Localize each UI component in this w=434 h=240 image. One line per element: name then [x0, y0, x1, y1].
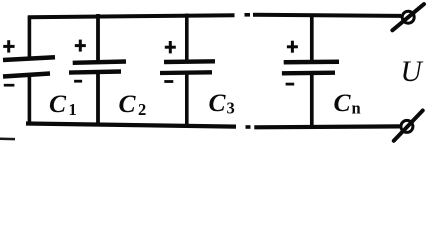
polarity minus C2 — [74, 80, 82, 83]
svg-text:1: 1 — [69, 100, 77, 119]
terminal bottom-right — [394, 111, 423, 141]
polarity minus C1 — [4, 84, 15, 87]
capacitor Cn bottom plate — [282, 70, 335, 75]
wire C3 bottom lead — [185, 73, 189, 127]
terminal top-right — [392, 4, 424, 30]
label C1 — [49, 89, 77, 119]
polarity plus Cn — [287, 41, 298, 53]
capacitor C2 top plate — [73, 62, 126, 63]
svg-text:C: C — [49, 89, 67, 118]
polarity minus Cn — [286, 83, 295, 86]
wire C2 top lead — [96, 14, 100, 63]
wire top rail right segment — [253, 15, 401, 16]
svg-text:n: n — [352, 99, 361, 118]
capacitor Cn top plate — [284, 59, 339, 64]
capacitor C1 bottom plate — [3, 74, 50, 77]
capacitor C2 bottom plate — [69, 72, 121, 73]
svg-text:C: C — [334, 88, 352, 117]
svg-text:2: 2 — [138, 100, 146, 119]
wire Cn bottom lead — [310, 73, 314, 128]
wire top rail dash — [245, 13, 251, 17]
polarity plus C3 — [165, 41, 176, 53]
polarity plus C1 — [3, 40, 14, 52]
wire top rail left segment — [28, 15, 235, 17]
svg-text:C: C — [209, 88, 227, 117]
wire bottom rail left segment — [26, 124, 236, 127]
label C3 — [209, 88, 235, 118]
capacitor C1 top plate — [3, 57, 55, 60]
wire bottom rail right segment — [254, 124, 399, 129]
polarity plus C2 — [75, 40, 86, 52]
wire C2 bottom lead — [96, 73, 100, 127]
label Cn — [334, 88, 361, 118]
capacitor C3 bottom plate — [160, 70, 212, 75]
wire C1 bottom lead — [28, 75, 32, 126]
wire C1 top lead — [28, 16, 32, 60]
svg-text:C: C — [119, 89, 137, 118]
wire Cn top lead — [310, 14, 314, 64]
polarity minus C3 — [164, 80, 173, 83]
capacitor C3 top plate — [164, 59, 215, 64]
label C2 — [119, 89, 147, 119]
svg-text:U: U — [401, 56, 424, 88]
svg-text:3: 3 — [227, 99, 235, 118]
wire bottom rail dash — [246, 125, 251, 129]
wire C3 top lead — [185, 14, 189, 63]
